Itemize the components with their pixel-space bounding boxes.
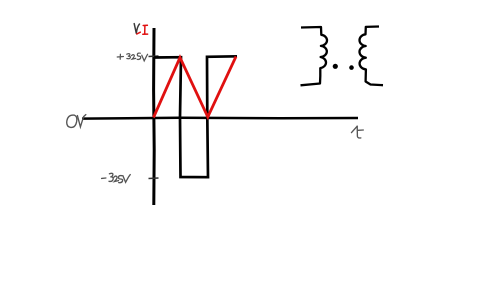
- label 0V (handwritten gray): [67, 115, 86, 128]
- label -325V (handwritten gray): [102, 173, 131, 182]
- polarity dot (right): [349, 65, 354, 70]
- inductor L2 (right secondary coil): [359, 27, 383, 86]
- horizontal axis (t axis): [82, 117, 358, 120]
- tick +325V: [149, 55, 159, 58]
- tick -325V: [149, 177, 159, 180]
- triangle wave (red): [154, 57, 237, 118]
- label comma (red): [137, 32, 141, 34]
- label t (handwritten gray): [352, 126, 364, 138]
- label +325V (handwritten gray): [117, 53, 147, 61]
- label V (axis label, dark handwritten): [134, 24, 139, 34]
- label I (axis label, red serif): [143, 25, 148, 34]
- square wave (black): [154, 56, 237, 177]
- vertical axis (V,I axis): [152, 28, 156, 205]
- inductor L1 (left primary coil): [301, 27, 328, 85]
- polarity dot (left): [333, 64, 338, 69]
